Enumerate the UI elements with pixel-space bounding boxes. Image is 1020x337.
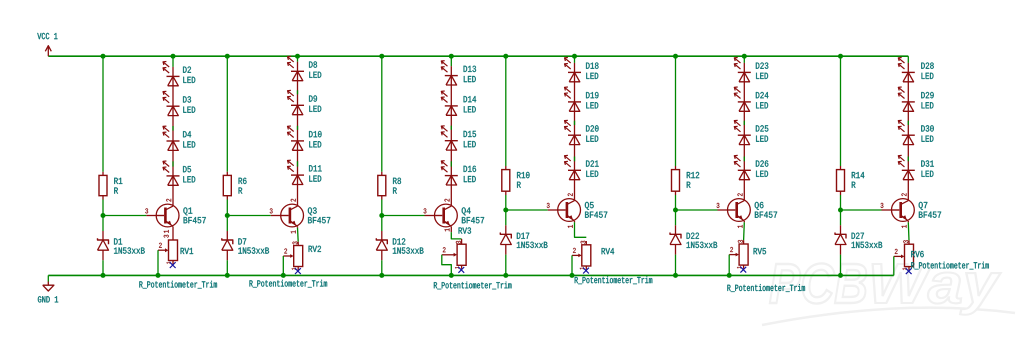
node LED string VCC junction stage 5 xyxy=(742,54,747,59)
diode D1 top pin xyxy=(102,231,104,240)
pin number 2 of RV1 xyxy=(159,243,162,248)
label RV5 reference xyxy=(754,248,766,254)
wire base Q6 to R12 xyxy=(676,209,718,211)
pin number 3 of Q6 xyxy=(717,203,720,208)
node LED string VCC junction stage 4 xyxy=(572,54,577,59)
label D14 value LED xyxy=(464,106,476,112)
label Q6 value BF457 xyxy=(755,212,777,218)
pin number 1 of RV6 xyxy=(902,268,906,270)
wire LED gap segment stage 3 xyxy=(450,126,452,130)
wire D22 to GND rail xyxy=(675,255,677,276)
wire base Q3 to R6 xyxy=(227,215,270,217)
pin number 1 of Q3 xyxy=(291,231,296,234)
resistor R14 top pin xyxy=(840,166,842,170)
LED D30 xyxy=(898,120,915,144)
transistor Q7 base pin xyxy=(882,209,892,211)
label Q7 value BF457 xyxy=(919,212,941,218)
wire LED gap segment stage 2 xyxy=(297,161,299,166)
wire VCC rail to D13 xyxy=(450,56,452,66)
wire GND bottom rail xyxy=(48,274,894,276)
label D1 value xyxy=(114,247,145,253)
node R10 VCC junction xyxy=(503,54,508,59)
diode D27 bottom pin xyxy=(840,245,842,255)
node R14 VCC junction xyxy=(838,54,843,59)
node D27 GND junction xyxy=(838,273,843,278)
label RV3 reference xyxy=(459,227,471,233)
resistor R8 top pin xyxy=(381,172,383,176)
pin number 1 of RV5 xyxy=(737,266,741,268)
wire emitter Q4 to RV3 xyxy=(451,232,461,239)
pin number 3 of Q1 xyxy=(145,208,148,213)
wire VCC rail to R14 xyxy=(840,56,842,166)
wire D17 to GND rail xyxy=(505,255,507,276)
resistor R12 xyxy=(672,170,680,192)
label D10 value LED xyxy=(309,141,321,147)
potentiometer RV4 xyxy=(572,245,591,266)
label D20 reference xyxy=(586,125,598,131)
wire LED string stage 6 (pins) xyxy=(907,63,909,201)
label D12 reference xyxy=(393,238,405,244)
label D18 value LED xyxy=(586,73,598,79)
label R_Potentiometer_Trim of RV1 xyxy=(139,281,217,289)
diode D22 top pin xyxy=(675,225,677,234)
LED D10 xyxy=(288,126,305,150)
LED D8 xyxy=(288,56,305,80)
label D25 reference xyxy=(756,125,768,131)
node base junction Q1 xyxy=(101,213,106,218)
pin number 3 of RV6 xyxy=(903,240,908,243)
label R8 reference xyxy=(393,178,401,184)
no-connect flag on RV4 pin 1 xyxy=(583,268,589,274)
node RV1 GND junction xyxy=(156,273,161,278)
wire base Q5 to R10 xyxy=(506,209,548,211)
diode D17 (zener 1N53xxB) xyxy=(500,233,511,245)
label D15 value LED xyxy=(464,141,476,147)
label D17 value xyxy=(517,242,548,248)
potentiometer RV3 xyxy=(442,244,466,265)
node LED string VCC junction stage 3 xyxy=(449,54,454,59)
resistor R6 top pin xyxy=(226,172,228,176)
label Q6 reference xyxy=(755,202,764,210)
label D4 reference xyxy=(183,131,191,137)
wire LED gap segment stage 6 xyxy=(907,157,909,162)
label D25 value LED xyxy=(756,136,768,142)
LED D16 xyxy=(441,161,458,185)
label D11 reference xyxy=(309,165,322,171)
wire base node to D12 xyxy=(381,216,383,232)
label R10 value R xyxy=(517,182,521,188)
wire D27 to GND rail xyxy=(840,255,842,276)
pin number 3 of Q3 xyxy=(270,208,273,213)
resistor R14 bottom pin xyxy=(840,191,842,195)
resistor R6 bottom pin xyxy=(226,196,228,200)
LED D18 xyxy=(565,58,582,82)
power symbol GND xyxy=(38,275,58,302)
label RV2 reference xyxy=(309,246,321,252)
diode D17 top pin xyxy=(505,225,507,234)
wire emitter Q1 to RV1 xyxy=(172,227,174,241)
power symbol VCC xyxy=(37,33,57,56)
label D26 reference xyxy=(756,160,768,166)
wire VCC rail to D18 xyxy=(574,56,576,63)
LED D15 xyxy=(441,126,458,150)
diode D27 (zener 1N53xxB) xyxy=(835,233,846,245)
pin number 3 of RV2 xyxy=(292,242,297,245)
node R8 VCC junction xyxy=(379,54,384,59)
potentiometer RV4 top pin xyxy=(585,241,587,245)
node LED string VCC junction stage 2 xyxy=(295,54,300,59)
wire VCC rail to R8 xyxy=(381,56,383,172)
transistor Q3 emitter pin xyxy=(297,227,299,228)
diode D7 top pin xyxy=(226,231,228,240)
node RV2 GND junction xyxy=(281,273,286,278)
label R10 reference xyxy=(517,172,529,178)
pin number 2 of Q4 xyxy=(444,199,449,202)
label D29 reference xyxy=(921,92,933,98)
label D31 value LED xyxy=(922,171,934,177)
potentiometer RV5 xyxy=(729,244,748,265)
resistor R8 bottom pin xyxy=(381,196,383,200)
node RV4 GND junction xyxy=(570,273,575,278)
label R1 value R xyxy=(114,187,118,193)
label Q1 value BF457 xyxy=(184,217,206,223)
potentiometer RV5 bottom pin xyxy=(743,265,745,269)
label D21 reference xyxy=(586,160,599,166)
label R6 reference xyxy=(239,178,247,184)
label D16 value LED xyxy=(464,176,476,182)
label D21 value LED xyxy=(586,171,598,177)
wire base node to D7 xyxy=(226,216,228,232)
diode D22 bottom pin xyxy=(675,245,677,255)
LED D29 xyxy=(898,87,915,111)
potentiometer RV6 xyxy=(894,244,914,266)
LED D21 xyxy=(565,155,582,179)
wire LED gap segment stage 4 xyxy=(574,157,576,162)
label D26 value LED xyxy=(756,171,768,177)
potentiometer RV4 bottom pin xyxy=(585,266,587,270)
LED D26 xyxy=(734,155,751,179)
no-connect flag on RV5 pin 1 xyxy=(740,267,746,273)
potentiometer RV5 top pin xyxy=(743,240,745,244)
node RV5 GND junction xyxy=(727,273,732,278)
wire R6 to base node xyxy=(226,200,228,216)
label D17 reference xyxy=(517,233,529,239)
label D2 reference xyxy=(183,67,191,73)
pin number 1 of Q6 xyxy=(738,225,743,228)
wire LED gap segment stage 5 xyxy=(743,157,745,162)
wire D12 to GND rail xyxy=(381,260,383,275)
label D27 reference xyxy=(852,233,864,239)
pin number 2 of Q1 xyxy=(166,199,171,202)
node RV3 GND junction xyxy=(449,273,454,278)
wire VCC rail to R1 xyxy=(102,56,104,172)
pin number 3 of Q5 xyxy=(547,203,550,208)
potentiometer RV3 top pin xyxy=(461,239,463,244)
resistor R8 xyxy=(378,175,386,195)
wire base Q1 to R1 xyxy=(103,215,146,217)
LED D2 xyxy=(163,62,180,86)
transistor Q4 xyxy=(435,204,458,227)
LED D14 xyxy=(441,91,458,115)
node R1 VCC junction xyxy=(101,54,106,59)
label D2 value LED xyxy=(183,77,195,83)
pin number 1 of Q7 xyxy=(902,225,907,228)
diode D27 top pin xyxy=(840,225,842,234)
resistor R10 xyxy=(502,170,510,192)
wire LED gap segment stage 2 xyxy=(297,126,299,130)
transistor Q4 emitter pin xyxy=(450,227,452,233)
wire LED string stage 5 (pins) xyxy=(743,63,745,201)
label D20 value LED xyxy=(586,136,598,142)
wire VCC rail to R6 xyxy=(226,56,228,172)
node base junction Q5 xyxy=(503,208,508,213)
label D9 value LED xyxy=(309,106,321,112)
pin number 3 of RV4 xyxy=(581,241,586,244)
label R14 value R xyxy=(852,182,856,188)
wire base node to D17 xyxy=(505,210,507,225)
pin number 3 of Q7 xyxy=(881,203,884,208)
pin number 1 of Q1 xyxy=(164,230,169,233)
pin number 3 of Q4 xyxy=(424,208,427,213)
LED D3 xyxy=(163,91,180,115)
wire VCC rail to D23 xyxy=(743,56,745,63)
LED D4 xyxy=(163,126,180,150)
wire RV5 wiper to GND rail xyxy=(728,255,730,276)
node base junction Q3 xyxy=(225,213,230,218)
potentiometer RV1 xyxy=(158,240,178,261)
wire LED gap segment stage 6 xyxy=(907,121,909,125)
resistor R1 xyxy=(99,175,107,195)
wire VCC rail to R10 xyxy=(505,56,507,166)
label D12 value xyxy=(393,247,424,253)
wire LED string stage 1 (pins) xyxy=(172,67,174,206)
LED D5 xyxy=(163,161,180,185)
label D19 value LED xyxy=(586,102,598,108)
resistor R6 xyxy=(223,175,231,195)
no-connect flag on RV2 pin 1 xyxy=(295,268,301,274)
pin number 1 of Q4 xyxy=(445,228,450,231)
label D28 reference xyxy=(921,63,933,69)
transistor Q6 xyxy=(728,199,751,222)
transistor Q4 base pin xyxy=(425,215,435,217)
label D19 reference xyxy=(586,92,598,98)
label R14 reference xyxy=(852,172,865,178)
transistor Q7 emitter pin xyxy=(907,221,909,222)
potentiometer RV6 bottom pin xyxy=(908,267,910,271)
wire VCC rail to D28 xyxy=(907,56,909,63)
label Q1 reference xyxy=(183,207,192,215)
label R1 reference xyxy=(114,178,122,184)
node base junction Q7 xyxy=(838,208,843,213)
pin number 2 of Q3 xyxy=(291,199,296,202)
wire VCC rail to D8 xyxy=(297,56,299,62)
LED D31 xyxy=(898,155,915,179)
wire LED gap segment stage 4 xyxy=(574,121,576,125)
diode D17 bottom pin xyxy=(505,245,507,255)
wire LED gap segment stage 3 xyxy=(450,161,452,166)
no-connect flag on RV3 pin 1 xyxy=(458,267,464,273)
wire emitter Q5 to RV4 xyxy=(575,222,587,237)
wire D7 to GND rail xyxy=(226,260,228,275)
potentiometer RV3 bottom pin xyxy=(461,265,463,269)
label D10 reference xyxy=(309,131,321,137)
wire R12 to base node xyxy=(675,195,677,210)
pin number 2 of RV6 xyxy=(895,249,898,254)
LED D9 xyxy=(288,90,305,114)
label D16 reference xyxy=(464,166,476,172)
wire LED gap segment stage 1 xyxy=(172,126,174,131)
wire base node to D1 xyxy=(102,216,104,232)
resistor R10 top pin xyxy=(505,166,507,170)
label Q3 value BF457 xyxy=(308,217,330,223)
label D23 reference xyxy=(756,63,768,69)
node LED string VCC junction stage 1 xyxy=(171,54,176,59)
label D11 value LED xyxy=(309,175,321,181)
resistor R1 bottom pin xyxy=(102,196,104,200)
node R6 VCC junction xyxy=(225,54,230,59)
label R12 reference xyxy=(687,172,699,178)
label R_Potentiometer_Trim of RV3 xyxy=(434,282,512,290)
label D8 value LED xyxy=(309,72,321,78)
label D31 reference xyxy=(921,160,934,166)
label D23 value LED xyxy=(756,73,768,79)
potentiometer RV2 bottom pin xyxy=(297,267,299,271)
node D17 GND junction xyxy=(503,273,508,278)
transistor Q5 emitter pin xyxy=(574,221,576,222)
wire base node to D27 xyxy=(840,210,842,225)
LED D19 xyxy=(565,87,582,111)
diode D12 top pin xyxy=(381,231,383,240)
label D3 value LED xyxy=(183,107,195,113)
pin number 2 of RV2 xyxy=(284,248,287,253)
resistor R10 bottom pin xyxy=(505,191,507,195)
transistor Q1 xyxy=(156,204,179,227)
wire RV2 wiper to GND rail xyxy=(282,256,284,275)
diode D7 (zener 1N53xxB) xyxy=(222,238,233,250)
label D30 value LED xyxy=(922,136,934,142)
label R_Potentiometer_Trim of RV2 xyxy=(250,280,328,288)
label D9 reference xyxy=(309,95,317,101)
node base junction Q6 xyxy=(673,208,678,213)
diode D7 bottom pin xyxy=(226,250,228,260)
node D1 GND junction xyxy=(101,273,106,278)
transistor Q5 base pin xyxy=(548,209,558,211)
wire base node to D22 xyxy=(675,210,677,225)
label D3 reference xyxy=(183,96,191,102)
pin number 1 of RV4 xyxy=(580,267,584,269)
label R8 value R xyxy=(393,187,397,193)
label D1 reference xyxy=(114,238,122,244)
pin number 3 of RV5 xyxy=(738,240,743,243)
pin number 1 of RV1 xyxy=(166,262,170,264)
LED D23 xyxy=(734,58,751,82)
transistor Q5 xyxy=(558,199,581,222)
diode D12 (zener 1N53xxB) xyxy=(376,238,387,250)
wire RV1 wiper to GND rail xyxy=(157,250,159,275)
wire base Q4 to R8 xyxy=(382,215,425,217)
pin number 2 of Q7 xyxy=(901,193,906,196)
label D18 reference xyxy=(586,63,598,69)
no-connect flag on RV6 pin 1 xyxy=(906,268,912,274)
wire LED string stage 3 (pins) xyxy=(450,66,452,206)
wire emitter Q3 to RV2 xyxy=(297,228,300,242)
wire VCC top rail xyxy=(48,55,908,57)
potentiometer RV2 xyxy=(283,246,302,267)
decorative watermark (not labelled further) xyxy=(762,263,1015,325)
LED D25 xyxy=(734,120,751,144)
potentiometer RV2 top pin xyxy=(297,242,299,246)
potentiometer RV6 top pin xyxy=(908,240,910,244)
LED D20 xyxy=(565,120,582,144)
transistor Q6 emitter pin xyxy=(743,221,745,222)
label RV1 reference xyxy=(181,248,194,254)
label D5 value LED xyxy=(183,176,195,182)
label RV6 reference xyxy=(911,251,923,257)
pin number 1 of RV2 xyxy=(292,268,296,270)
wire D1 to GND rail xyxy=(102,260,104,275)
label Q5 value BF457 xyxy=(585,212,607,218)
wire LED string stage 4 (pins) xyxy=(574,63,576,201)
pin number 3 of RV1 xyxy=(164,235,169,238)
resistor R1 top pin xyxy=(102,172,104,176)
LED D28 xyxy=(898,58,915,82)
transistor Q6 base pin xyxy=(718,209,728,211)
pin number 1 of RV3 xyxy=(455,267,459,269)
resistor R14 xyxy=(837,170,845,192)
transistor Q1 base pin xyxy=(146,215,156,217)
label D5 reference xyxy=(183,166,191,172)
label D7 value xyxy=(238,247,269,253)
label D7 reference xyxy=(238,238,246,244)
wire VCC rail to R12 xyxy=(675,56,677,166)
wire RV3 wiper to GND rail xyxy=(442,255,452,276)
wire RV4 wiper to GND rail xyxy=(571,255,573,275)
transistor Q3 xyxy=(281,204,304,227)
node D12 GND junction xyxy=(379,273,384,278)
node base junction Q4 xyxy=(379,213,384,218)
label D13 reference xyxy=(464,66,476,72)
node D7 GND junction xyxy=(225,273,230,278)
potentiometer RV1 bottom pin xyxy=(172,261,174,265)
label R_Potentiometer_Trim of RV4 xyxy=(575,276,653,284)
wire emitter Q7 to RV6 xyxy=(907,222,910,240)
node D22 GND junction xyxy=(673,273,678,278)
label Q4 value BF457 xyxy=(462,217,484,223)
node R12 VCC junction xyxy=(673,54,678,59)
label R12 value R xyxy=(687,182,691,188)
pin number 2 of Q5 xyxy=(568,193,573,196)
LED D11 xyxy=(288,160,305,184)
wire emitter Q6 to RV5 xyxy=(743,222,746,240)
label D24 value LED xyxy=(756,102,768,108)
label Q5 reference xyxy=(585,202,594,210)
pin number 2 of RV3 xyxy=(443,247,446,252)
wire R10 to base node xyxy=(505,195,507,210)
label R_Potentiometer_Trim of RV5 xyxy=(727,284,805,292)
label D8 reference xyxy=(309,61,317,67)
label Q3 reference xyxy=(308,207,317,215)
diode D22 (zener 1N53xxB) xyxy=(670,233,681,245)
resistor R12 bottom pin xyxy=(675,191,677,195)
wire R8 to base node xyxy=(381,200,383,216)
diode D12 bottom pin xyxy=(381,250,383,260)
LED D24 xyxy=(734,87,751,111)
pin number 1 of Q5 xyxy=(568,225,573,228)
wire LED string stage 2 (pins) xyxy=(297,62,299,206)
label Q7 reference xyxy=(919,202,928,210)
label D13 value LED xyxy=(464,76,476,82)
wire GND rail to RV6 wiper xyxy=(893,256,895,275)
